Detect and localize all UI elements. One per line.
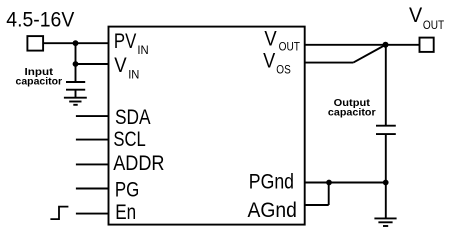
svg-text:OS: OS (276, 62, 291, 76)
svg-text:SCL: SCL (113, 128, 145, 151)
svg-text:V: V (263, 50, 275, 73)
svg-text:V: V (409, 4, 422, 27)
svg-text:ADDR: ADDR (113, 152, 164, 175)
svg-text:SDA: SDA (115, 106, 151, 129)
svg-text:PV: PV (114, 30, 136, 53)
svg-text:OUT: OUT (423, 18, 445, 32)
svg-text:4.5-16V: 4.5-16V (6, 8, 75, 32)
svg-text:V: V (114, 54, 127, 77)
svg-text:AGnd: AGnd (248, 199, 297, 222)
svg-text:PG: PG (115, 179, 139, 202)
svg-text:capacitor: capacitor (328, 108, 376, 119)
svg-text:OUT: OUT (279, 40, 301, 54)
svg-text:V: V (264, 27, 276, 50)
svg-text:capacitor: capacitor (16, 76, 63, 87)
svg-text:En: En (115, 201, 136, 224)
svg-text:PGnd: PGnd (249, 171, 294, 194)
svg-text:IN: IN (128, 67, 139, 81)
svg-text:IN: IN (137, 43, 148, 57)
